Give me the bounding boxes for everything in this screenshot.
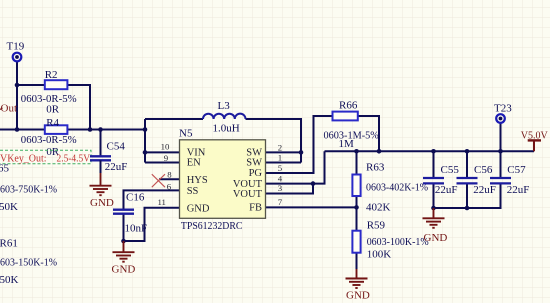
- capacitor C16: [113, 192, 145, 214]
- svg-text:C57: C57: [507, 164, 526, 176]
- svg-text:TPS61232DRC: TPS61232DRC: [181, 220, 243, 232]
- svg-text:2.5-4.5V: 2.5-4.5V: [57, 152, 91, 164]
- inductor L3: [203, 100, 246, 119]
- svg-text:11: 11: [157, 197, 165, 207]
- capacitor C54: [90, 140, 125, 160]
- svg-text:GND: GND: [90, 197, 114, 209]
- junction T23/C57 on rail: [498, 149, 503, 154]
- svg-text:SW: SW: [246, 158, 262, 169]
- svg-text:T19: T19: [7, 40, 25, 52]
- svg-text:HYS: HYS: [187, 175, 208, 186]
- svg-text:10nF: 10nF: [125, 222, 148, 234]
- directive box VKey_Out: 2.5-4.5V: [0, 150, 91, 164]
- junction VIN pin tap: [143, 150, 148, 155]
- svg-text:22uF: 22uF: [105, 161, 128, 173]
- wire main V5.0V output rail: [325, 150, 535, 152]
- wire L3 right terminal to SW pins: [246, 119, 302, 163]
- ground under C54: [90, 160, 114, 209]
- svg-text:R66: R66: [339, 100, 358, 112]
- test point T19: [7, 40, 25, 61]
- svg-text:22uF: 22uF: [507, 184, 530, 196]
- svg-text:0603-402K-1%: 0603-402K-1%: [366, 182, 428, 194]
- capacitor C56: [457, 164, 493, 184]
- svg-text:R63: R63: [366, 162, 385, 174]
- junction SW pin 2 tap: [299, 150, 304, 155]
- svg-text:R4: R4: [46, 117, 59, 129]
- wire C56 riser: [466, 151, 468, 178]
- svg-text:V5.0V: V5.0V: [521, 129, 548, 141]
- capacitor C57: [490, 164, 526, 184]
- svg-text:C54: C54: [107, 140, 126, 152]
- resistor R2: [45, 69, 68, 89]
- junction main wire at IC riser: [143, 127, 148, 132]
- no-connect X on pin 8 HYS: [152, 174, 165, 187]
- svg-text:Out: Out: [1, 103, 18, 115]
- wire VIN pin 10: [145, 151, 180, 153]
- svg-text:750K: 750K: [0, 201, 18, 213]
- wire T23 stem through rail to C57: [500, 124, 502, 179]
- junction C55 bottom ground tap: [431, 206, 436, 211]
- junction C56 bottom: [465, 206, 470, 211]
- svg-text:1.0uH: 1.0uH: [213, 122, 240, 134]
- svg-text:402K: 402K: [366, 201, 391, 213]
- resistor R59: [352, 220, 385, 253]
- svg-text:EN: EN: [187, 158, 201, 169]
- svg-text:SS: SS: [187, 186, 199, 197]
- wire VIN/EN riser: [144, 119, 146, 163]
- power port V5.0V: [521, 129, 548, 151]
- capacitor C55: [423, 164, 459, 184]
- svg-text:6: 6: [167, 181, 172, 191]
- resistor R66: [333, 100, 358, 121]
- svg-text:22uF: 22uF: [473, 184, 496, 196]
- junction R63 top on rail: [354, 149, 359, 154]
- svg-text:C16: C16: [126, 192, 145, 204]
- svg-text:2: 2: [278, 143, 282, 153]
- wire T19 vertical stem: [16, 61, 18, 130]
- wire GND pin 11 down to C16 ground node: [124, 208, 180, 241]
- svg-text:0603-0R-5%: 0603-0R-5%: [21, 134, 77, 146]
- svg-text:GND: GND: [187, 203, 210, 214]
- wire R59 bottom stem: [356, 253, 358, 269]
- junction T19/R2 branch: [15, 83, 20, 88]
- svg-text:22uF: 22uF: [435, 184, 458, 196]
- svg-text:R59: R59: [367, 220, 386, 232]
- ground under R59: [346, 269, 370, 302]
- wire C56 bottom: [466, 185, 468, 209]
- wire R63 bottom stem: [356, 196, 358, 207]
- resistor R63: [352, 162, 384, 197]
- svg-text:0603-100K-1%: 0603-100K-1%: [367, 236, 429, 248]
- junction R66 drop on rail: [377, 149, 382, 154]
- svg-text:0603-150K-1%: 0603-150K-1%: [0, 257, 57, 269]
- wire SS pin 6 to C16: [124, 190, 180, 209]
- ground under capacitor bank: [423, 208, 448, 244]
- svg-text:100K: 100K: [367, 249, 392, 261]
- junction VOUT pins 3/4: [311, 181, 316, 186]
- svg-text:N5: N5: [179, 128, 193, 140]
- svg-text:PG: PG: [249, 168, 263, 179]
- svg-text:150K: 150K: [0, 274, 19, 286]
- wire R2 bypass branch: [17, 85, 90, 130]
- svg-text:0R: 0R: [46, 104, 60, 116]
- junction C54 tap: [98, 127, 103, 132]
- wire VOUT pin 3: [266, 184, 314, 194]
- svg-text:L3: L3: [218, 100, 231, 112]
- wire PG pin 5 up to R66 left: [266, 116, 333, 173]
- svg-text:0603-750K-1%: 0603-750K-1%: [0, 184, 57, 196]
- svg-text:3: 3: [278, 183, 283, 193]
- svg-text:10: 10: [161, 142, 170, 152]
- svg-text:C56: C56: [474, 164, 493, 176]
- svg-text:5: 5: [278, 163, 283, 173]
- ground under C16: [112, 241, 136, 276]
- wire capacitor bottom ground bus: [434, 185, 501, 209]
- junction T19 stem on main wire: [15, 127, 20, 132]
- wire EN pin 9: [145, 162, 180, 164]
- svg-text:FB: FB: [249, 203, 262, 214]
- wire SW pin 1: [266, 162, 302, 164]
- resistor R4: [45, 117, 68, 134]
- wire C16 bottom to ground node: [123, 214, 125, 241]
- wire VOUT pin 4 riser to output net: [266, 151, 325, 183]
- svg-text:R61: R61: [0, 238, 18, 250]
- svg-text:4: 4: [278, 173, 283, 183]
- junction R2 bypass on main wire: [88, 127, 93, 132]
- net label Out (clipped at left edge): [0, 108, 3, 110]
- junction C56 on rail: [465, 149, 470, 154]
- svg-text:65: 65: [0, 162, 10, 174]
- pin HYS stub pin 8: [159, 178, 180, 180]
- IC N5 TPS61232DRC body: [179, 128, 266, 232]
- wire C54 drop: [100, 130, 102, 157]
- wire C55 riser: [433, 151, 435, 178]
- junction C55 on rail: [431, 149, 436, 154]
- svg-text:7: 7: [278, 197, 283, 207]
- wire to L3 left terminal: [145, 118, 203, 120]
- wire net VKey_Out main horizontal from left edge to IC riser: [0, 129, 145, 131]
- junction FB node at R63/R59: [354, 205, 359, 210]
- svg-text:GND: GND: [424, 232, 448, 244]
- svg-text:GND: GND: [112, 264, 136, 276]
- wire FB pin 7 to R63/R59 node: [266, 206, 357, 208]
- wire R66 right drop to output rail: [358, 116, 379, 151]
- svg-text:GND: GND: [346, 290, 370, 302]
- svg-text:1M: 1M: [339, 138, 355, 150]
- wire SW pin 2: [266, 151, 302, 153]
- svg-text:C55: C55: [441, 164, 460, 176]
- svg-text:9: 9: [164, 153, 169, 163]
- svg-text:VOUT: VOUT: [233, 189, 263, 200]
- wire R59 top stem: [356, 207, 358, 230]
- svg-text:R2: R2: [45, 69, 58, 81]
- svg-text:8: 8: [167, 170, 172, 180]
- wire R63 top stem: [356, 151, 358, 174]
- svg-text:T23: T23: [494, 102, 512, 114]
- test point T23: [494, 102, 512, 122]
- svg-text:1: 1: [278, 153, 282, 163]
- junction C16 ground node: [121, 239, 126, 244]
